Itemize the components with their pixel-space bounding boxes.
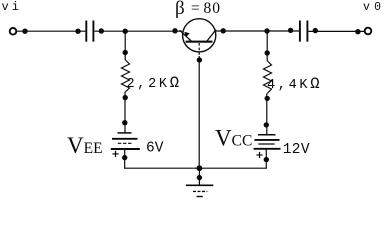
battery VCC plus sign: [256, 152, 262, 158]
svg-text:v0: v0: [363, 1, 384, 14]
ground: [186, 185, 213, 196]
svg-text:4,4KΩ: 4,4KΩ: [267, 75, 322, 93]
battery VEE plates: [111, 133, 140, 149]
wire capacitor C1 to transistor emitter: [94, 30, 182, 32]
junction dot below resistor RC: [265, 96, 270, 101]
junction dot below battery VEE: [122, 155, 127, 160]
battery VEE plus sign: [112, 151, 118, 157]
wire ground node to ground symbol: [198, 168, 200, 185]
capacitor C2 (output coupling): [300, 21, 308, 42]
junction dot at emitter wire: [172, 28, 177, 33]
junction dot at output terminal: [355, 29, 360, 34]
junction dot above battery VCC: [264, 122, 269, 127]
bottom rail wire: [125, 167, 267, 169]
transistor Q1 emitter lead with arrow: [180, 30, 192, 41]
wire battery VCC to bottom rail: [265, 149, 267, 169]
output terminal (v0): [365, 28, 372, 35]
transistor Q1 circle: [183, 19, 216, 52]
junction dot on ground stub: [197, 175, 202, 180]
junction dot at ground node: [197, 165, 203, 171]
junction dot on base lead: [197, 57, 202, 62]
resistor RC 4.4k zigzag: [264, 61, 272, 93]
node B (top of RC branch): [264, 28, 269, 33]
battery VCC plates: [254, 135, 281, 149]
junction dot below resistor RE: [123, 95, 128, 100]
input terminal (vi): [10, 28, 17, 35]
junction dot right of capacitor C2: [313, 28, 318, 33]
svg-text:β=80: β=80: [175, 0, 221, 19]
junction dot left of capacitor C2: [288, 28, 293, 33]
capacitor C1 (input coupling): [86, 21, 93, 42]
wire battery VEE to bottom rail: [124, 149, 126, 169]
svg-text:2,2KΩ: 2,2KΩ: [127, 74, 182, 92]
wire node A down to resistor RE: [124, 31, 126, 60]
svg-text:vi: vi: [2, 0, 22, 14]
junction dot above battery VEE: [122, 120, 127, 125]
svg-text:12V: 12V: [283, 142, 310, 158]
junction dot on input wire: [22, 29, 27, 34]
wire resistor RE to battery VEE: [124, 92, 126, 133]
junction dot at collector wire: [221, 28, 226, 33]
junction dot above resistor RE: [123, 50, 128, 55]
node A (top of RE branch): [123, 29, 128, 34]
wire node B down to resistor RC: [266, 31, 268, 61]
transistor Q1 collector lead: [207, 30, 216, 41]
junction dot above resistor RC: [265, 50, 270, 55]
resistor RE 2.2k zigzag: [122, 60, 130, 92]
transistor Q1 base bar: [186, 41, 213, 43]
junction dot below battery VCC: [264, 157, 269, 162]
svg-text:6V: 6V: [146, 140, 164, 156]
wire capacitor C2 to output terminal: [308, 30, 364, 32]
wire input terminal to capacitor C1: [16, 30, 85, 32]
junction dot right of capacitor C1: [99, 28, 104, 33]
junction dot left of capacitor C1: [75, 29, 80, 34]
wire transistor base down to ground rail: [198, 43, 200, 168]
wire transistor collector to node B: [216, 30, 299, 32]
wire resistor RC to battery VCC: [266, 93, 268, 134]
